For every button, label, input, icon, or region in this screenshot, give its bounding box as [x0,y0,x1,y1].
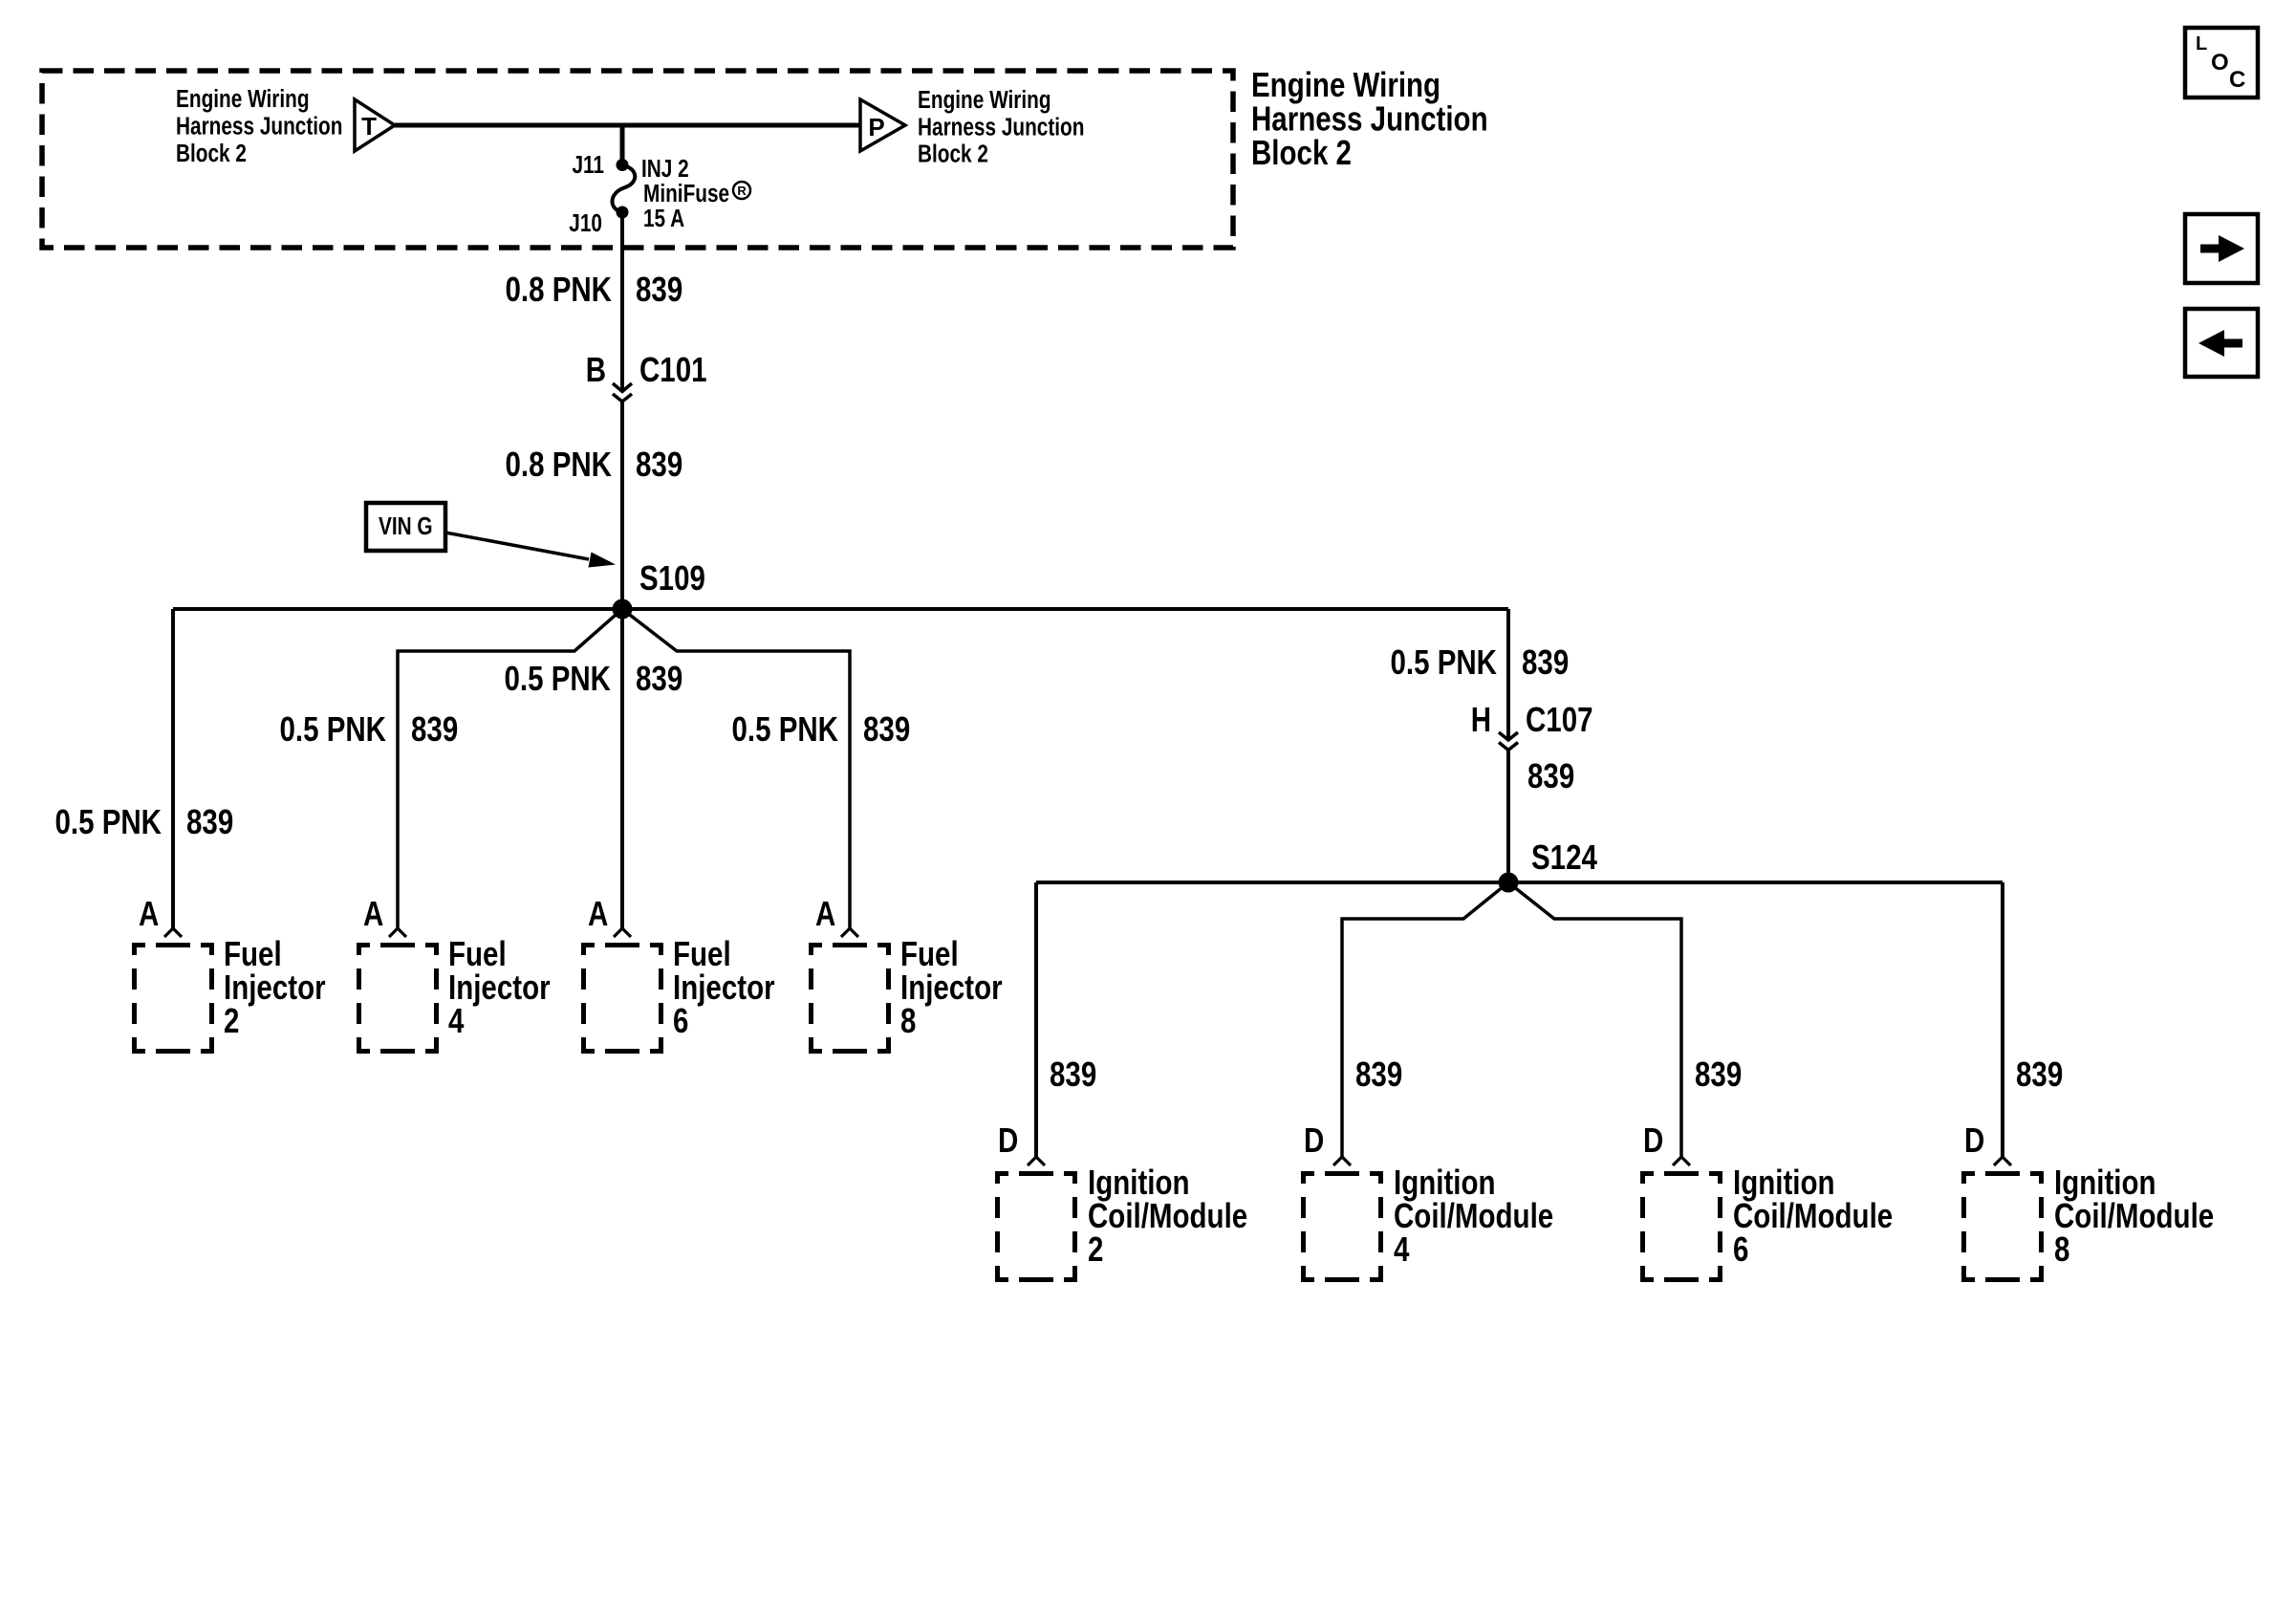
svg-text:4: 4 [448,1001,465,1039]
svg-text:D: D [1964,1120,1984,1159]
svg-text:Harness Junction: Harness Junction [918,113,1084,141]
svg-text:VIN G: VIN G [379,512,433,540]
svg-text:839: 839 [636,659,682,697]
svg-text:C: C [2229,67,2245,93]
svg-text:D: D [1304,1120,1324,1159]
svg-text:839: 839 [636,270,682,308]
svg-text:H: H [1471,700,1491,738]
svg-text:0.5 PNK: 0.5 PNK [504,659,611,697]
svg-text:Coil/Module: Coil/Module [1733,1196,1893,1234]
svg-text:C107: C107 [1526,700,1593,738]
svg-text:Block 2: Block 2 [1251,133,1352,171]
svg-text:A: A [139,894,159,932]
svg-text:0.5 PNK: 0.5 PNK [54,802,162,840]
svg-text:J10: J10 [569,209,602,237]
svg-text:P: P [868,113,884,141]
svg-text:839: 839 [636,445,682,483]
svg-text:T: T [361,112,377,141]
svg-text:839: 839 [863,709,910,748]
svg-text:A: A [815,894,835,932]
svg-text:Coil/Module: Coil/Module [2054,1196,2214,1234]
svg-text:839: 839 [1522,642,1569,681]
svg-text:2: 2 [224,1001,239,1039]
svg-text:6: 6 [1733,1229,1748,1268]
svg-text:S109: S109 [639,558,705,597]
svg-text:D: D [1643,1120,1663,1159]
svg-text:Coil/Module: Coil/Module [1088,1196,1247,1234]
svg-text:J11: J11 [572,151,604,179]
svg-text:0.5 PNK: 0.5 PNK [1390,642,1497,681]
svg-text:839: 839 [186,802,233,840]
svg-text:Block 2: Block 2 [176,140,247,167]
svg-text:O: O [2211,50,2229,76]
svg-text:A: A [363,894,383,932]
svg-text:839: 839 [2016,1055,2063,1093]
svg-text:Harness Junction: Harness Junction [176,112,342,140]
svg-text:D: D [998,1120,1018,1159]
svg-text:839: 839 [1355,1055,1402,1093]
svg-text:0.8 PNK: 0.8 PNK [505,445,612,483]
svg-text:0.5 PNK: 0.5 PNK [279,709,386,748]
svg-text:0.8 PNK: 0.8 PNK [505,270,612,308]
svg-text:839: 839 [411,709,458,748]
svg-text:Engine Wiring: Engine Wiring [1251,65,1440,103]
svg-text:0.5 PNK: 0.5 PNK [731,709,838,748]
svg-text:4: 4 [1394,1229,1410,1268]
svg-text:Coil/Module: Coil/Module [1394,1196,1553,1234]
svg-text:2: 2 [1088,1229,1103,1268]
svg-text:L: L [2196,33,2207,54]
svg-text:Engine Wiring: Engine Wiring [176,85,310,113]
svg-text:Block 2: Block 2 [918,140,988,167]
svg-text:R: R [737,184,747,198]
svg-text:Harness Junction: Harness Junction [1251,99,1488,138]
svg-text:INJ 2: INJ 2 [641,155,689,183]
svg-text:MiniFuse: MiniFuse [643,180,729,207]
svg-text:6: 6 [673,1001,688,1039]
svg-text:A: A [588,894,608,932]
svg-text:839: 839 [1527,756,1574,794]
svg-text:839: 839 [1695,1055,1742,1093]
svg-text:8: 8 [900,1001,916,1039]
svg-text:B: B [586,350,606,388]
svg-text:15 A: 15 A [643,205,684,232]
svg-text:8: 8 [2054,1229,2069,1268]
svg-text:Engine Wiring: Engine Wiring [918,86,1051,114]
svg-text:839: 839 [1050,1055,1096,1093]
svg-text:C101: C101 [639,350,707,388]
svg-text:S124: S124 [1531,838,1598,876]
